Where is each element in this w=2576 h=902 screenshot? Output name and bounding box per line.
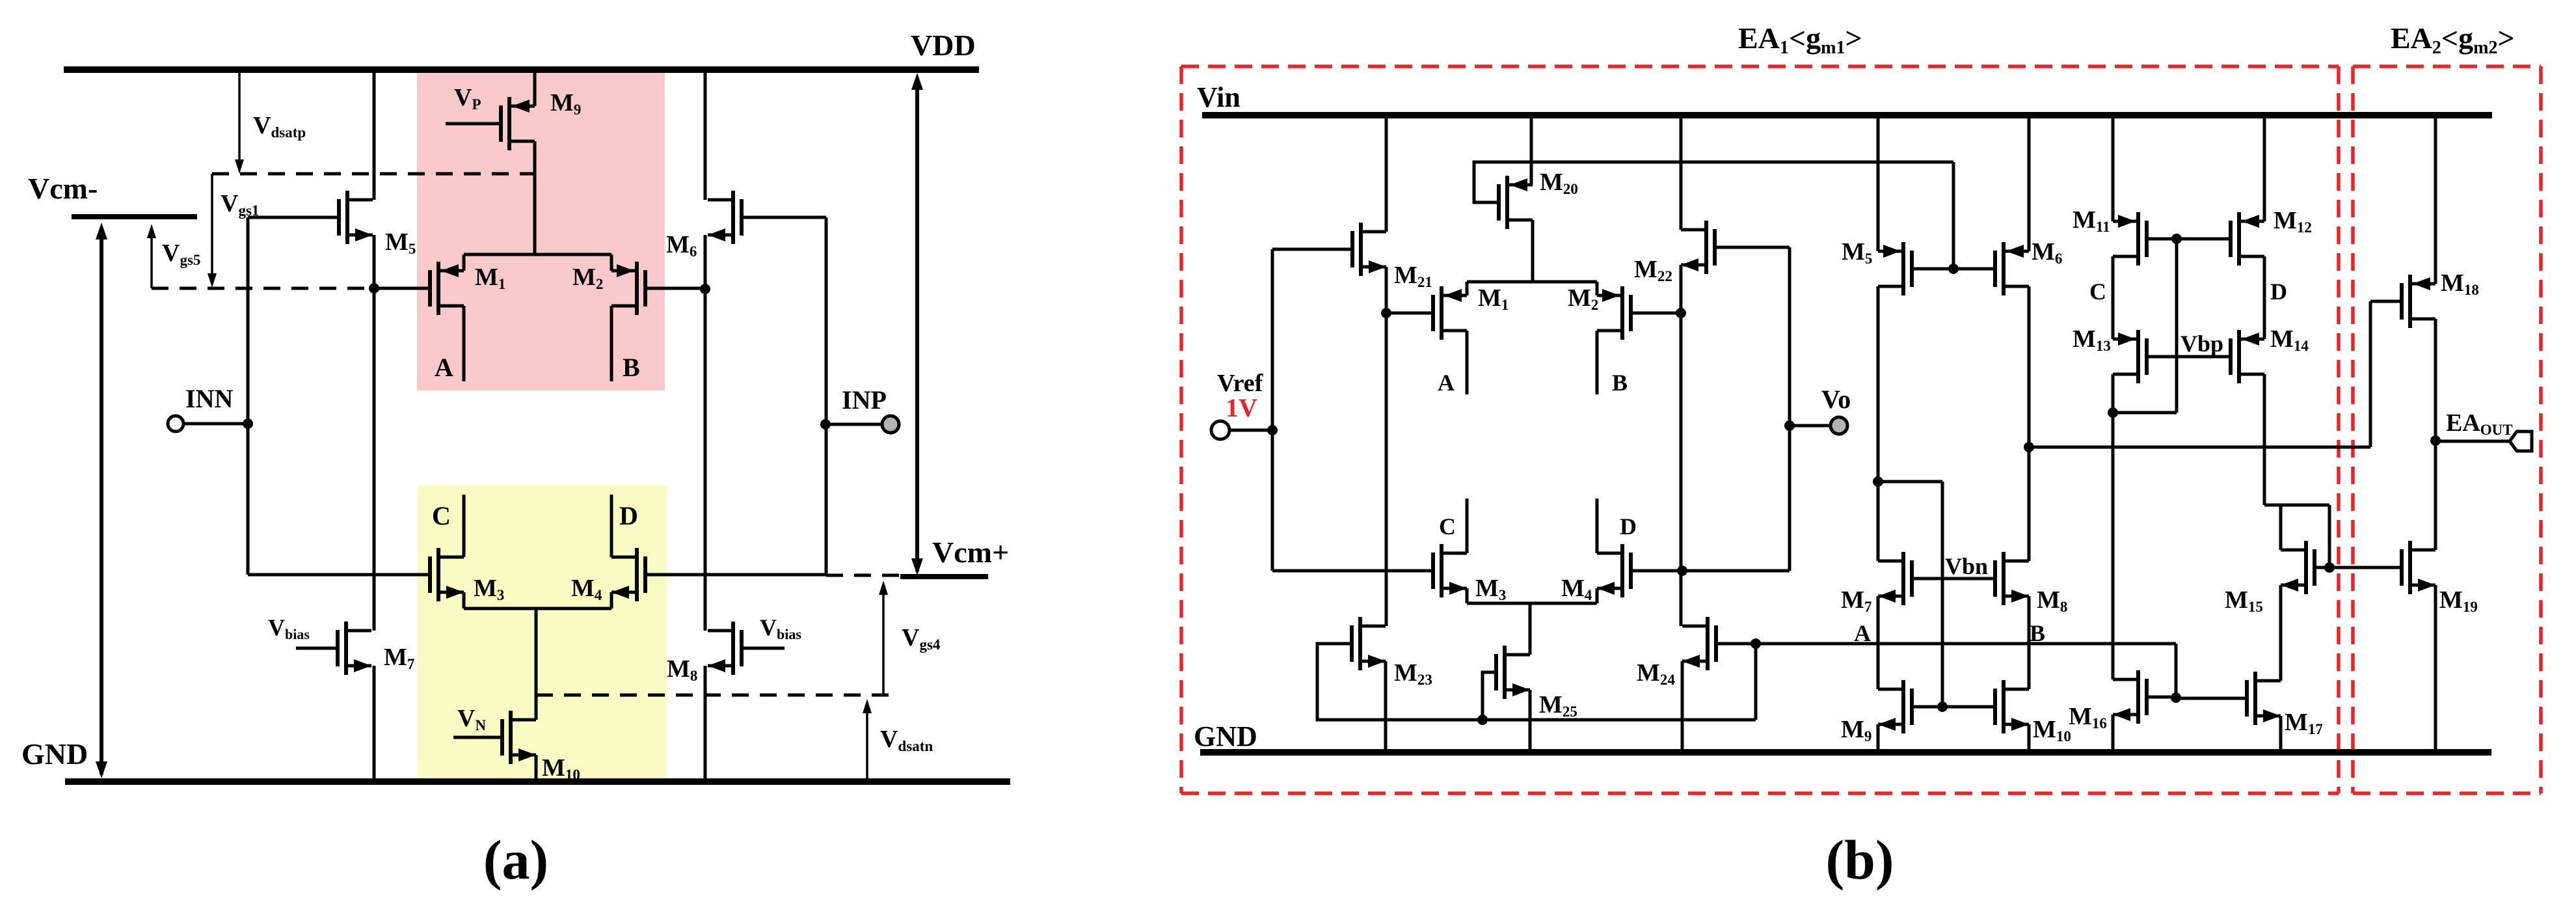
svg-text:INN: INN bbox=[185, 384, 233, 413]
svg-text:1V: 1V bbox=[1226, 393, 1257, 422]
svg-text:INP: INP bbox=[842, 385, 887, 415]
svg-text:(a): (a) bbox=[483, 828, 548, 891]
svg-text:C: C bbox=[2089, 279, 2106, 305]
svg-text:Vin: Vin bbox=[1197, 81, 1241, 113]
svg-text:B: B bbox=[1612, 370, 1628, 396]
svg-text:A: A bbox=[1854, 620, 1871, 646]
svg-text:GND: GND bbox=[1194, 720, 1257, 752]
svg-text:VDD: VDD bbox=[911, 29, 976, 62]
svg-text:C: C bbox=[1439, 513, 1456, 540]
svg-text:C: C bbox=[432, 501, 451, 530]
svg-text:D: D bbox=[1620, 513, 1637, 540]
svg-text:Vbp: Vbp bbox=[2180, 331, 2223, 357]
svg-text:(b): (b) bbox=[1825, 828, 1894, 891]
svg-text:Vcm-: Vcm- bbox=[28, 172, 98, 205]
svg-text:Vcm+: Vcm+ bbox=[932, 536, 1009, 569]
svg-text:B: B bbox=[2030, 620, 2045, 646]
svg-text:B: B bbox=[623, 353, 640, 382]
svg-text:A: A bbox=[1438, 370, 1455, 396]
svg-text:Vbn: Vbn bbox=[1945, 553, 1988, 579]
svg-text:D: D bbox=[619, 501, 638, 530]
svg-text:D: D bbox=[2270, 279, 2287, 305]
svg-text:A: A bbox=[435, 353, 453, 382]
svg-text:GND: GND bbox=[21, 737, 88, 771]
svg-text:Vo: Vo bbox=[1821, 385, 1851, 414]
